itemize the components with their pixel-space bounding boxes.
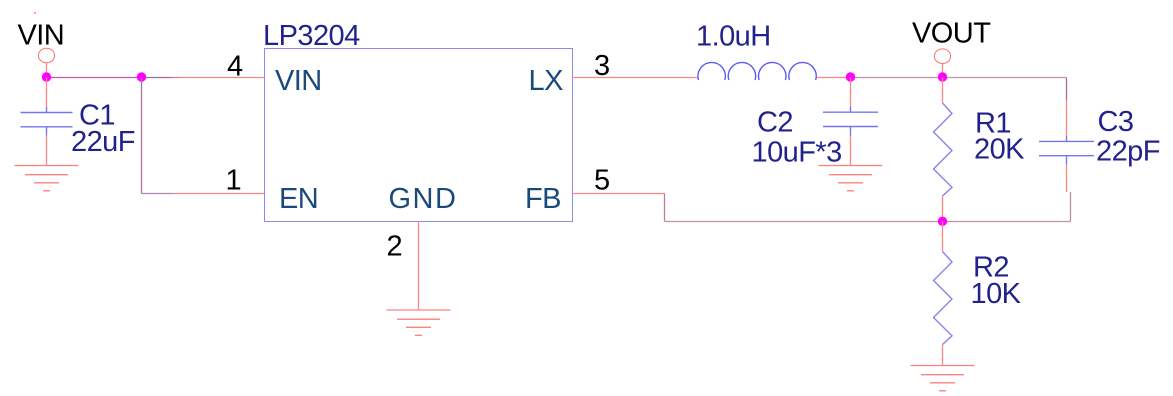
wire rail blend (172, 77, 178, 79)
IC U1 LP3204 body (265, 49, 573, 222)
wire FB drop (664, 194, 666, 222)
svg-text:FB: FB (525, 183, 561, 215)
stray mark (34, 12, 36, 14)
resistor R1 (934, 103, 953, 196)
ground at pin 2 (387, 310, 451, 335)
svg-text:1.0uH: 1.0uH (696, 21, 771, 53)
wire C1 top lead (46, 78, 48, 107)
wire C3 bottom lead (1066, 165, 1068, 192)
wire VIN port stub (46, 63, 48, 78)
wire C2 bottom lead (850, 136, 852, 166)
wire EN horizontal to pin 1 (178, 193, 265, 195)
wire C3 lower jog (1070, 192, 1072, 222)
capacitor C3 (1039, 136, 1094, 165)
svg-text:20K: 20K (974, 134, 1025, 166)
svg-text:GND: GND (389, 183, 458, 215)
svg-text:5: 5 (594, 164, 610, 196)
resistor R2 (934, 252, 953, 345)
wire R2 bottom lead (942, 345, 944, 366)
wire R1 bottom lead (942, 196, 944, 222)
wire C3 top lead mauve part (1066, 78, 1068, 100)
wire VOUT port stub (942, 64, 944, 78)
wire EN horizontal mauve part (142, 193, 172, 195)
svg-text:VIN: VIN (275, 65, 322, 97)
wire EN vertical (141, 78, 143, 194)
svg-text:10uF*3: 10uF*3 (752, 137, 842, 169)
svg-text:22pF: 22pF (1096, 136, 1160, 168)
junction at EN branch (137, 72, 146, 81)
wire LX to inductor (573, 77, 698, 79)
svg-text:4: 4 (227, 51, 243, 83)
junction at VOUT (938, 72, 947, 81)
ground R2 (911, 366, 975, 391)
svg-text:1: 1 (226, 164, 242, 196)
wire C3 top lead (1066, 100, 1068, 137)
wire R1 top lead (942, 78, 944, 104)
inductor L1 (698, 62, 816, 80)
wire overlap junction to transition (142, 77, 172, 79)
ground C1 (15, 166, 79, 191)
svg-text:VIN: VIN (18, 20, 65, 52)
ground C2 (819, 166, 883, 191)
capacitor C2 (823, 106, 878, 135)
svg-text:LX: LX (529, 65, 564, 97)
wire C2 junction to VOUT (851, 77, 943, 79)
wire feedback rail (665, 221, 1071, 223)
svg-text:2: 2 (387, 231, 403, 263)
node VOUT port circle (934, 49, 950, 64)
wire C1 bottom lead (46, 136, 48, 166)
svg-text:22uF: 22uF (71, 126, 135, 158)
wire VIN rail to EN junction (47, 77, 142, 79)
capacitor C1 (21, 107, 73, 136)
node VIN port circle (38, 48, 54, 63)
svg-text:VOUT: VOUT (912, 18, 991, 50)
svg-text:10K: 10K (971, 278, 1022, 310)
junction at VIN port (42, 72, 51, 81)
svg-text:C3: C3 (1098, 106, 1134, 138)
wire C2 top lead (850, 78, 852, 107)
junction at feedback divider (938, 217, 947, 226)
wire R2 top lead (942, 222, 944, 252)
wire EN horizontal blend (172, 193, 178, 195)
svg-text:C2: C2 (757, 107, 793, 139)
svg-text:LP3204: LP3204 (263, 20, 360, 52)
junction at C2 (846, 72, 855, 81)
wire VOUT rail to C3 (943, 77, 1067, 79)
wire rail to pin 4 (178, 77, 265, 79)
svg-text:EN: EN (279, 183, 318, 215)
wire inductor to C2 junction (817, 77, 851, 79)
wire GND pin 2 (418, 221, 420, 310)
wire FB horizontal (573, 193, 665, 195)
